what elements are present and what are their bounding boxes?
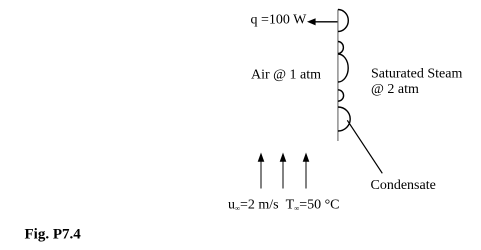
svg-text:Air @ 1 atm: Air @ 1 atm [251,68,321,83]
svg-text:Fig. P7.4: Fig. P7.4 [25,227,82,243]
svg-text:u∞=2 m/s T∞=50 °C: u∞=2 m/s T∞=50 °C [228,198,340,213]
svg-text:q =100 W: q =100 W [251,13,308,28]
svg-text:Condensate: Condensate [371,178,436,193]
svg-text:Saturated Steam: Saturated Steam [371,66,462,81]
svg-text:@ 2 atm: @ 2 atm [371,82,419,97]
